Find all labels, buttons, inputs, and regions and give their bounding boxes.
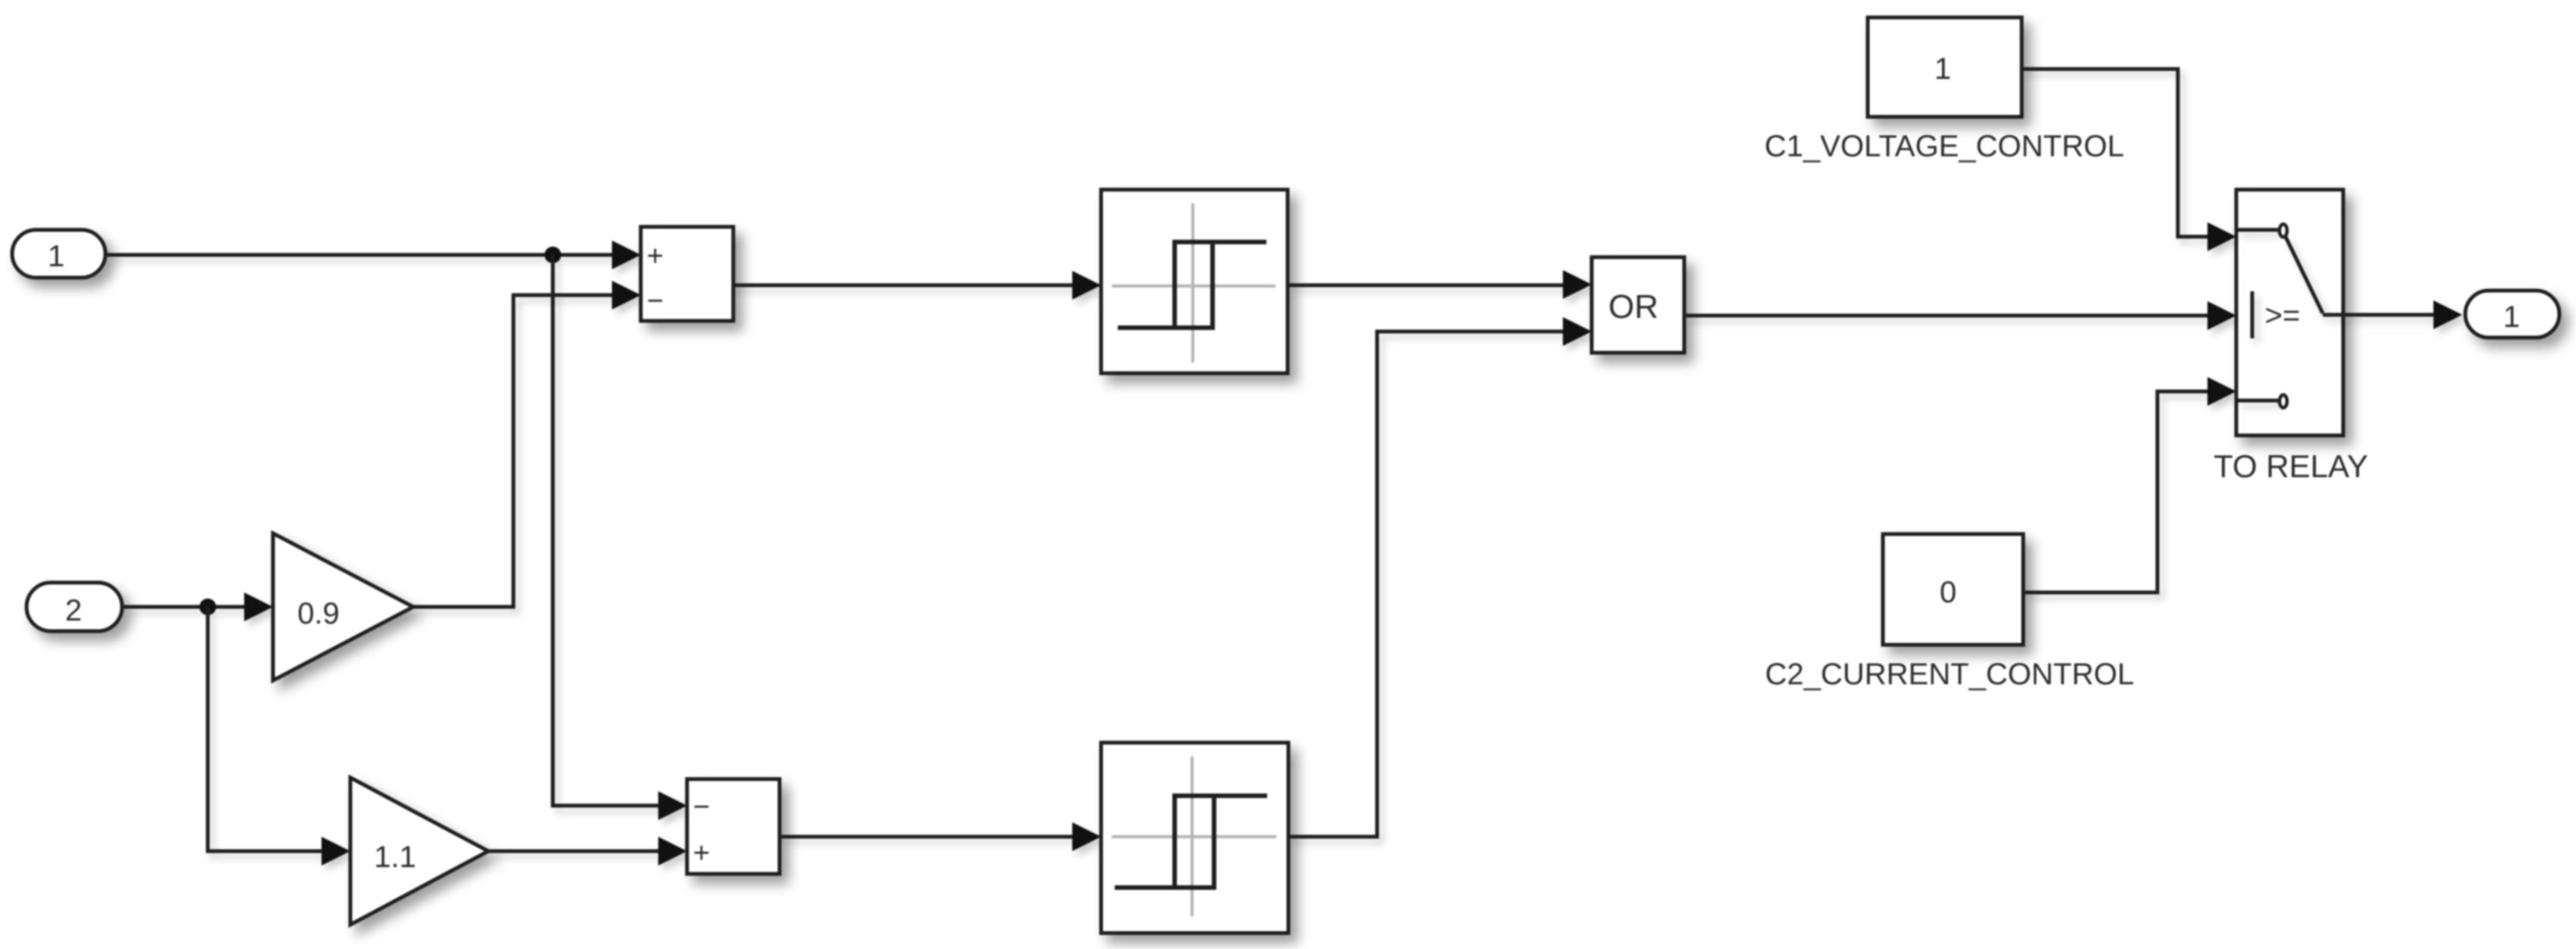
arrowhead into gain G1 <box>244 592 273 621</box>
wire: sum S2 output to relay R2 <box>780 835 1075 839</box>
wire: relay R1 output to OR top input <box>1288 284 1565 288</box>
arrowhead into S2 plus <box>658 837 687 866</box>
svg-text:OR: OR <box>1608 288 1658 325</box>
svg-text:2: 2 <box>65 594 82 627</box>
sum block S1 <box>641 227 733 321</box>
svg-text:−: − <box>647 285 664 317</box>
svg-text:TO RELAY: TO RELAY <box>2214 448 2368 484</box>
svg-text:C2_CURRENT_CONTROL: C2_CURRENT_CONTROL <box>1765 658 2135 691</box>
sum block S2 <box>687 779 780 874</box>
wire: junction down to gain G2 <box>208 607 324 851</box>
svg-text:>=: >= <box>2265 299 2301 332</box>
arrowhead into relay R2 <box>1072 822 1101 851</box>
relay R2 hysteresis curve <box>1115 796 1267 888</box>
relay block R1 <box>1101 190 1288 373</box>
wire: switch output to outport <box>2323 313 2436 317</box>
constant C1_VOLTAGE_CONTROL value 1 <box>1868 17 2022 117</box>
gain G1 (0.9) triangle <box>273 533 413 680</box>
switch block TO RELAY <box>2236 190 2343 435</box>
svg-text:1: 1 <box>48 240 64 273</box>
svg-text:C1_VOLTAGE_CONTROL: C1_VOLTAGE_CONTROL <box>1765 130 2124 163</box>
arrowhead into OR top <box>1563 270 1592 299</box>
switch bottom port line <box>2236 399 2278 403</box>
switch top port line <box>2236 228 2278 232</box>
relay block R2 <box>1101 743 1288 933</box>
arrowhead into S1 plus <box>612 240 641 269</box>
inport 2 <box>27 583 122 631</box>
arrowhead into S2 minus <box>658 791 687 820</box>
arrowhead into OR bottom <box>1563 317 1592 346</box>
inport 1 <box>12 230 105 278</box>
switch top port oval <box>2279 225 2287 237</box>
svg-text:0.9: 0.9 <box>297 597 340 630</box>
node: junction on inport2 wire <box>199 599 216 615</box>
arrowhead into relay R1 <box>1072 271 1101 300</box>
wire: relay R2 output up to OR bottom input <box>1288 332 1565 837</box>
svg-text:0: 0 <box>1940 576 1956 609</box>
arrowhead into S1 minus <box>612 281 641 310</box>
wire: inport 2 to gain G1 <box>122 605 246 609</box>
OR logic block U1 <box>1592 257 1684 353</box>
svg-text:−: − <box>693 791 710 823</box>
relay R1 axis crosshair <box>1112 203 1275 363</box>
arrowhead into outport <box>2433 300 2462 329</box>
wire: constant C1 to switch top input <box>2022 69 2210 237</box>
svg-text:+: + <box>693 837 710 869</box>
arrowhead into gain G2 <box>322 837 350 866</box>
switch threshold bar <box>2251 291 2254 338</box>
wire: constant C2 to switch bottom input <box>2023 391 2210 592</box>
switch selector diagonal <box>2286 237 2323 313</box>
arrowhead into switch middle <box>2207 301 2236 330</box>
wire: gain G1 output up to sum S1 minus input <box>413 295 614 607</box>
svg-text:1.1: 1.1 <box>374 841 416 874</box>
node: junction on inport1 wire <box>544 247 561 263</box>
wire: OR output to switch middle input <box>1684 314 2210 318</box>
svg-text:1: 1 <box>1934 52 1951 86</box>
svg-text:1: 1 <box>2503 300 2520 334</box>
arrowhead into switch top <box>2207 222 2236 251</box>
svg-text:+: + <box>647 240 664 272</box>
wire: inport 1 to sum S1 plus input <box>105 253 614 257</box>
switch bottom port oval <box>2279 395 2287 408</box>
wire: gain G2 output to sum S2 plus input <box>488 850 660 853</box>
constant C2_CURRENT_CONTROL value 0 <box>1883 534 2023 645</box>
wire: junction down to sum S2 minus input <box>553 255 660 806</box>
wire: sum S1 output to relay R1 <box>733 284 1075 288</box>
arrowhead into switch bottom <box>2207 377 2236 406</box>
gain G2 (1.1) triangle <box>350 778 488 925</box>
relay R1 hysteresis curve <box>1118 242 1266 328</box>
relay R2 axis crosshair <box>1112 756 1276 916</box>
outport 1 <box>2465 291 2559 338</box>
